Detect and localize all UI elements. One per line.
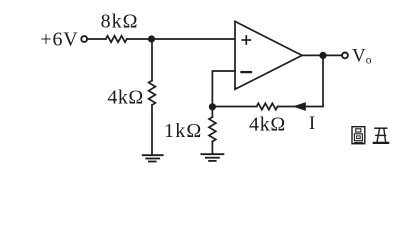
resistor R3 4k ohm feedback (horizontal zigzag)	[257, 103, 278, 109]
minus symbol (inverting input)	[242, 71, 252, 73]
inverting input wire (left then down to node B)	[212, 71, 235, 107]
svg-text:I: I	[309, 113, 315, 134]
figure caption glyph: 五 (drawn strokes)	[373, 128, 390, 143]
output terminal open circle	[342, 53, 348, 59]
feedback wire down from output node	[322, 55, 324, 106]
wire node B down to R4	[211, 107, 213, 117]
feedback wire horizontal (right of R3)	[278, 106, 323, 108]
svg-text:+6V: +6V	[40, 29, 78, 51]
input terminal open circle	[81, 36, 87, 42]
figure caption glyph: 圖 (drawn strokes)	[352, 127, 365, 144]
wire node A down to R2	[151, 39, 153, 81]
output wire from apex	[302, 54, 342, 56]
output node dot	[319, 52, 326, 59]
feedback wire horizontal (left of R3) to node B	[212, 106, 256, 108]
wire from terminal to R1	[88, 38, 106, 40]
resistor R1 8k ohm (horizontal zigzag)	[106, 36, 127, 42]
svg-text:1kΩ: 1kΩ	[164, 120, 202, 142]
current arrow I (pointing left)	[293, 102, 306, 111]
wire R2 to ground	[151, 105, 153, 154]
svg-text:8kΩ: 8kΩ	[101, 10, 139, 32]
wire node A to op-amp + input	[152, 38, 236, 40]
node B junction dot	[209, 103, 216, 110]
svg-text:Vo: Vo	[352, 46, 372, 67]
resistor R4 1k ohm (vertical zigzag)	[209, 117, 216, 142]
op-amp U1 triangle	[235, 21, 302, 89]
wire R4 to ground	[211, 142, 213, 154]
plus symbol (non-inverting input)	[242, 36, 250, 44]
ground symbol (left)	[143, 155, 163, 161]
svg-text:4kΩ: 4kΩ	[249, 114, 286, 136]
wire from R1 to node A	[127, 38, 152, 40]
svg-text:4kΩ: 4kΩ	[107, 86, 143, 108]
node A junction dot	[148, 35, 155, 42]
ground symbol (right)	[201, 154, 223, 161]
resistor R2 4k ohm (vertical zigzag)	[149, 81, 156, 106]
